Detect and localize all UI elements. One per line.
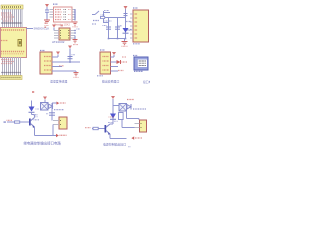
diode D3 flyback <box>49 104 53 110</box>
svg-text:输出变换器口: 输出变换器口 <box>102 79 119 84</box>
J3 right pin stubs <box>72 10 75 20</box>
label Q2 <box>108 122 113 124</box>
pin ticks bottom <box>2 72 22 74</box>
blue text mid circuit <box>54 109 64 111</box>
label C3 <box>119 25 123 27</box>
red text above Q2 <box>109 116 115 118</box>
net label +5V <box>60 102 66 104</box>
net label U4 pin4 <box>118 70 124 72</box>
label GND U2 <box>73 44 78 46</box>
capacitor C3 <box>115 27 120 29</box>
wire pins U1 bottom to J2 <box>3 57 21 76</box>
J3 left pin stubs <box>50 10 54 18</box>
relay K1 coil <box>41 103 49 111</box>
power VCC flag U3 pin1 <box>56 52 60 58</box>
U1 xtal label <box>1 40 8 42</box>
net label U3 pin3 <box>59 65 64 67</box>
net label output <box>122 61 128 63</box>
junction dots bottom rail <box>108 38 110 40</box>
MCU U1 <box>1 28 27 58</box>
power VCC flag U4 <box>112 52 116 57</box>
ground below U2 right <box>73 40 78 43</box>
connector J2 bottom header strip <box>1 76 23 80</box>
wire relay K2 to J5 <box>127 111 140 120</box>
label GND power <box>122 45 128 47</box>
label GND U3 <box>74 76 79 78</box>
wire U4 pin4 <box>111 70 119 72</box>
power VCC flag above U2 <box>52 25 56 31</box>
J5 pin stubs <box>135 124 140 128</box>
module U3 sensor <box>40 52 52 74</box>
net labels on bottom pins <box>1 60 14 64</box>
capacitor C4 <box>49 113 55 115</box>
wire Q1 base <box>7 121 29 123</box>
net labels left of P1 <box>126 21 131 23</box>
red text mid right <box>122 56 126 58</box>
net flag arrow below J5 <box>131 136 134 139</box>
wire contact to J5 pin2 <box>122 120 135 128</box>
wire U4 pin3 <box>111 66 119 68</box>
diode D5 flyback <box>127 104 131 110</box>
connector J5 <box>140 120 147 132</box>
wire U2 to ground <box>74 36 76 40</box>
net flag base <box>4 121 6 123</box>
fuse F1 <box>101 16 105 18</box>
U2 right pins <box>70 31 75 39</box>
capacitor C1 <box>45 10 49 18</box>
relay K2 contact section <box>119 113 124 120</box>
label C2 <box>103 25 107 27</box>
small red mark above U2 <box>61 25 63 27</box>
wire power input vertical <box>103 11 105 23</box>
label lower branch <box>105 20 113 22</box>
LED D2 power indicator <box>123 28 131 33</box>
label Q1 <box>34 119 40 121</box>
net label +12V <box>127 99 134 101</box>
power VCC flag relay K2 <box>111 96 115 124</box>
ground right of J3 <box>73 22 78 25</box>
wire U3 pin4 <box>52 70 76 72</box>
capacitor C2 <box>106 27 111 29</box>
label U5 designator <box>133 55 138 57</box>
wire right rail of J3 <box>74 10 76 21</box>
wire Q1 collector <box>34 115 36 118</box>
wire to relay K2 <box>113 105 119 107</box>
wire lower branch <box>104 22 109 24</box>
label JTAG <box>53 3 58 5</box>
resistor R base Q2 <box>93 127 98 129</box>
net label below J5 <box>135 137 142 139</box>
svg-text:电源控制输出接口: 电源控制输出接口 <box>103 142 126 147</box>
red dot mid left <box>32 91 34 93</box>
net flag arrow bottom <box>56 134 59 137</box>
junction dot U3 data <box>69 61 71 63</box>
net label Q2 base <box>85 127 91 129</box>
label below U5 <box>134 70 143 72</box>
power VCC flag relay K1 <box>43 97 47 103</box>
wire main rail <box>100 17 126 19</box>
label C4 <box>46 113 49 115</box>
diode D1 on stem <box>124 14 128 16</box>
transistor Q2 <box>105 124 111 135</box>
wire +5V flag branch <box>52 102 57 104</box>
label below LED D6 <box>114 120 118 122</box>
svg-text:继电器控制输出接口电路: 继电器控制输出接口电路 <box>24 140 62 145</box>
net label base <box>7 119 13 121</box>
net label bottom <box>60 134 67 136</box>
label pullup <box>72 54 76 56</box>
svg-text:接口电路: 接口电路 <box>143 80 150 84</box>
wire LED branch <box>125 9 127 39</box>
svg-text:SWDIO/CLK: SWDIO/CLK <box>34 27 50 31</box>
label GND <box>73 26 78 28</box>
wire cap branch 1 <box>108 18 110 39</box>
pin number ticks <box>2 22 23 24</box>
net labels on top pins <box>1 13 14 21</box>
power VCC flag top right <box>124 6 128 9</box>
junction dots J3 rail <box>74 9 75 18</box>
svg-text:温湿度传感器: 温湿度传感器 <box>50 78 67 83</box>
connector J1 top header strip <box>1 5 23 9</box>
label F1 <box>101 14 106 16</box>
wire Q2 emitter <box>110 134 127 139</box>
label D4 <box>36 108 40 110</box>
ground U3 <box>74 71 79 76</box>
J5 pin dots <box>141 123 142 124</box>
U3 pin names <box>44 57 51 71</box>
LED D6 <box>110 114 116 120</box>
label U3 designator <box>40 50 45 52</box>
LED D4 <box>29 101 35 115</box>
wire U4 pin1 <box>111 56 115 58</box>
U1 bottom pin names <box>1 51 25 53</box>
wire Q2 base <box>92 128 105 130</box>
label P1 designator <box>133 7 138 9</box>
P1 pin stubs <box>130 14 133 38</box>
label below P1 <box>133 43 140 45</box>
connector P1 right header <box>133 10 149 42</box>
J3 pin rows <box>55 10 71 20</box>
blue text right of U2 <box>77 28 81 30</box>
wire top branch <box>104 12 111 14</box>
node dot <box>45 23 47 24</box>
wire U4 pin2 <box>111 61 117 63</box>
resistor R pullup marks <box>68 57 73 59</box>
diode D output <box>117 60 121 64</box>
resistor R base <box>15 121 20 123</box>
label S1 <box>93 20 99 22</box>
module U4 output <box>100 52 111 74</box>
wire bottom rail <box>109 38 126 40</box>
wire Q1 emitter down <box>35 127 57 136</box>
tiny text bottom left corner <box>128 146 131 148</box>
label below U4 <box>97 75 103 77</box>
connector J3 JTAG header <box>54 7 73 22</box>
label GND left <box>45 25 50 27</box>
wire vertical to connector <box>51 103 53 121</box>
power VCC flag left of J3 <box>45 4 49 10</box>
node dot <box>45 27 47 28</box>
IC U2 EEPROM <box>59 28 70 40</box>
module U5 crystal box <box>134 57 148 70</box>
P1 pin names <box>135 13 138 38</box>
relay K2 coil <box>119 104 127 112</box>
label right of D5 <box>133 108 146 110</box>
J4 pin stubs <box>53 121 59 125</box>
connector J4 <box>59 117 67 129</box>
wire pins J1 to U1 top <box>3 9 23 28</box>
label U4 designator <box>100 49 105 51</box>
wire SWD right of U1 <box>26 28 33 30</box>
net flag arrow +5V <box>57 102 60 105</box>
J4 pin dots <box>60 120 61 121</box>
wire J4 pin2 down <box>52 125 54 136</box>
U1 top pin names <box>1 29 25 31</box>
ground power section <box>122 39 128 45</box>
transistor Q1 <box>29 118 35 128</box>
ground left of J3 <box>44 18 50 24</box>
label R marks <box>34 114 39 116</box>
U2 pin number dots <box>60 30 69 39</box>
crystal Y1 <box>18 40 22 47</box>
svg-text:AT24C02: AT24C02 <box>52 40 65 44</box>
switch S1 <box>92 11 99 15</box>
wire U3 pin3 <box>52 66 62 68</box>
label top branch <box>104 10 109 12</box>
label power in <box>92 23 97 25</box>
wire Q2 collector <box>110 123 113 125</box>
wire U3 pin2 data <box>52 61 80 63</box>
wire cap branch 2 <box>117 18 119 39</box>
net dots right of U2 <box>74 30 76 31</box>
power VCC flag pullup <box>68 46 72 63</box>
U4 pin names <box>103 57 110 71</box>
U2 left pins <box>54 31 59 39</box>
wire U3 pin1 <box>52 56 58 58</box>
